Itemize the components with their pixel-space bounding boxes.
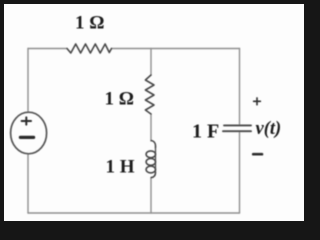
wire middle branch upper bbox=[150, 49, 152, 76]
voltage source minus sign bbox=[20, 136, 33, 139]
svg-text:v(t): v(t) bbox=[256, 119, 282, 139]
resistor R1 1ohm top zigzag bbox=[67, 44, 112, 53]
voltage source V1 circle bbox=[11, 112, 47, 154]
wire left lower bbox=[27, 154, 29, 213]
wire right upper bbox=[239, 49, 241, 125]
wire top-right segment bbox=[112, 48, 240, 50]
svg-text:1 F: 1 F bbox=[192, 121, 219, 143]
wire right lower bbox=[239, 133, 241, 214]
inductor L1 coil lead-out bbox=[151, 173, 155, 178]
inductor L1 loop 1 bbox=[146, 151, 155, 158]
capacitor C1 bottom plate bbox=[223, 130, 251, 132]
minus sign of v(t) bbox=[253, 153, 262, 156]
components (darker ink) bbox=[11, 44, 262, 178]
inductor L1 loop 2 bbox=[146, 159, 155, 166]
resistor R2 1ohm middle zigzag bbox=[145, 75, 154, 114]
capacitor C1 top plate bbox=[224, 124, 251, 126]
plain connecting wires (light scan gray) bbox=[28, 49, 240, 214]
plus sign of v(t) bbox=[254, 98, 261, 105]
wire between R2 and L1 bbox=[150, 114, 152, 141]
wire below inductor bbox=[150, 178, 152, 213]
wire bottom bbox=[28, 212, 240, 214]
inductor L1 coil lead-in bbox=[151, 141, 155, 148]
wire top-left segment bbox=[28, 48, 67, 50]
svg-text:1 H: 1 H bbox=[106, 157, 135, 178]
svg-text:1 Ω: 1 Ω bbox=[105, 89, 134, 110]
wire left upper bbox=[27, 49, 29, 113]
inductor L1 coil spine bbox=[155, 148, 157, 173]
voltage source plus sign bbox=[22, 117, 31, 124]
svg-text:1 Ω: 1 Ω bbox=[75, 13, 104, 34]
inductor L1 loop 3 bbox=[146, 166, 155, 173]
